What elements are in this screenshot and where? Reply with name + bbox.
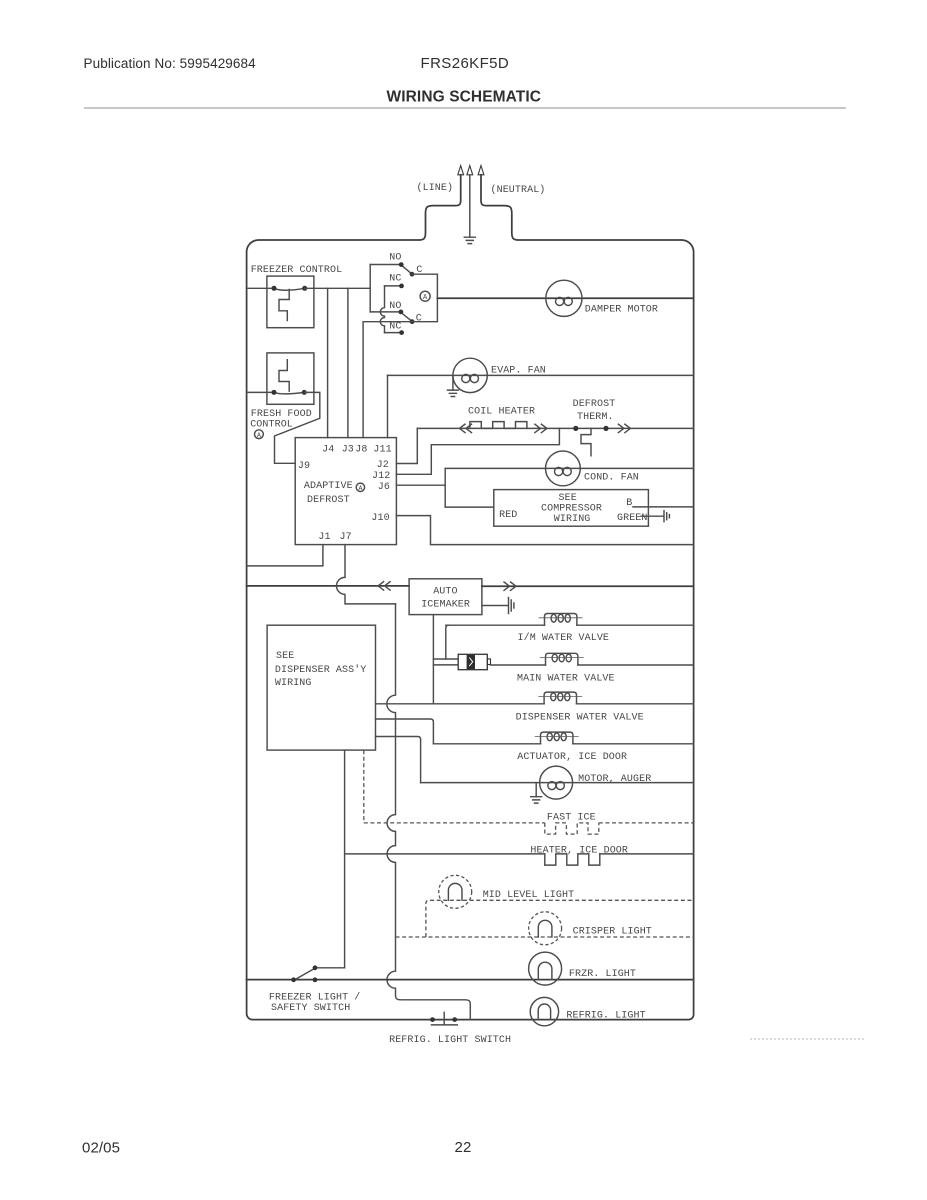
svg-text:RED: RED — [499, 510, 517, 521]
wire: J1 to left edge — [247, 545, 323, 566]
damper motor windings — [556, 297, 564, 305]
GREEN chassis ground symbol — [664, 511, 669, 522]
main water valve coil — [546, 653, 578, 665]
water valve block — [458, 654, 490, 669]
svg-text:J7: J7 — [340, 532, 352, 543]
wire: freezer control to defrost relay — [305, 287, 371, 289]
wire: NC1 to NC2 with hops — [380, 286, 384, 333]
fast ice heater element (dashed bumps down) — [545, 823, 599, 834]
cond fan circle — [546, 451, 581, 486]
evap fan circle — [453, 358, 487, 392]
svg-text:FRZR. LIGHT: FRZR. LIGHT — [569, 969, 636, 980]
svg-text:GREEN: GREEN — [617, 513, 648, 524]
fast ice heater line (dashed) — [364, 822, 694, 824]
wire: J7 drop with hop over icemaker line — [337, 545, 396, 604]
wire: icemaker earth lead — [482, 605, 508, 607]
adaptive defrost control box — [295, 438, 396, 545]
NC terminal 2 — [399, 330, 404, 335]
wire: riser to NO contact 2 — [370, 311, 399, 313]
svg-text:J3: J3 — [342, 445, 354, 456]
auto icemaker box — [409, 579, 482, 615]
svg-text:J9: J9 — [298, 461, 310, 472]
svg-text:WIRING: WIRING — [275, 678, 312, 689]
mid level light filament — [448, 883, 462, 900]
svg-text:ADAPTIVE: ADAPTIVE — [304, 481, 353, 492]
svg-text:C: C — [416, 314, 422, 325]
I/M water valve coil — [545, 614, 577, 626]
ice door heater element (bumps down) — [545, 854, 600, 865]
defrost thermostat terminal dot 1 — [573, 426, 578, 431]
wire: dispenser box to auger motor — [376, 737, 421, 783]
wire: main water valve line — [491, 664, 694, 666]
svg-text:NO: NO — [389, 253, 401, 264]
auger motor circle — [540, 766, 573, 799]
freezer light filament — [538, 962, 552, 979]
wire: J6 to cond fan node — [396, 484, 445, 486]
svg-text:COND. FAN: COND. FAN — [584, 473, 639, 484]
freezer control switch arm — [274, 288, 305, 290]
svg-text:THERM.: THERM. — [577, 412, 614, 423]
evap fan windings — [462, 374, 470, 382]
connector chevrons left on icemaker line — [378, 582, 390, 590]
cond fan windings — [555, 467, 563, 475]
icemaker chassis ground symbol — [509, 598, 514, 614]
wire: icemaker tap riser to I/M valve — [446, 625, 449, 659]
svg-text:J12: J12 — [372, 471, 390, 482]
svg-text:EVAP. FAN: EVAP. FAN — [491, 365, 546, 376]
svg-text:(NEUTRAL): (NEUTRAL) — [491, 184, 546, 196]
svg-text:MOTOR, AUGER: MOTOR, AUGER — [578, 774, 651, 785]
wire: J10 to right bus — [396, 516, 693, 545]
svg-text:DEFROST: DEFROST — [573, 399, 616, 410]
svg-text:FRS26KF5D: FRS26KF5D — [421, 55, 510, 72]
svg-text:DISPENSER WATER VALVE: DISPENSER WATER VALVE — [516, 713, 644, 724]
refrig light bulb — [530, 997, 558, 1025]
mid level light line (dashed) — [426, 900, 694, 937]
coil heater element (bumps up) — [470, 422, 527, 429]
svg-text:NC: NC — [389, 321, 401, 332]
svg-text:J4: J4 — [322, 445, 334, 456]
crisper light line (dashed) — [396, 936, 694, 938]
auger ground symbol — [531, 797, 542, 803]
svg-text:DAMPER MOTOR: DAMPER MOTOR — [585, 304, 658, 315]
crisper light filament — [538, 920, 552, 937]
wire: left edge to freezer control — [247, 287, 272, 289]
title rule — [84, 107, 846, 109]
wire: NC2 stub — [385, 332, 399, 334]
svg-text:MID LEVEL LIGHT: MID LEVEL LIGHT — [483, 890, 575, 901]
mid level light bulb (dashed circle) — [439, 875, 472, 908]
wire: fresh food control to J9 — [275, 392, 320, 463]
wire: cond fan node riser — [444, 468, 446, 507]
wire: I/M water valve line — [446, 624, 694, 626]
freezer light bulb — [529, 952, 562, 985]
wire: left edge to auto icemaker — [247, 585, 410, 587]
wire: B lead to right bus — [633, 506, 694, 508]
NO terminal 1 — [399, 262, 404, 267]
svg-text:SEE: SEE — [276, 651, 294, 662]
svg-text:DEFROST: DEFROST — [307, 495, 350, 506]
fresh food switch arm — [274, 392, 304, 393]
svg-text:Publication No: 5995429684: Publication No: 5995429684 — [84, 56, 257, 71]
wire: NC1 stub — [385, 285, 399, 287]
wire: icemaker to right bus — [482, 585, 694, 587]
svg-text:J6: J6 — [378, 482, 390, 493]
svg-text:NC: NC — [389, 273, 401, 284]
wire: relay to damper motor to right bus — [437, 297, 693, 299]
circled A relay — [420, 291, 430, 301]
svg-text:A: A — [358, 485, 362, 492]
freezer control thermostat box — [267, 276, 314, 328]
NC terminal 1 — [399, 284, 404, 289]
wire: C2 to J8 — [363, 322, 412, 438]
connector chevrons left on heater line — [460, 424, 472, 432]
svg-text:WIRING SCHEMATIC: WIRING SCHEMATIC — [387, 89, 542, 106]
earth ground symbol — [464, 237, 475, 243]
freezer control capillary step — [279, 290, 289, 321]
dispenser assembly box — [267, 625, 375, 750]
svg-text:COMPRESSOR: COMPRESSOR — [541, 504, 602, 515]
svg-text:AUTO: AUTO — [433, 587, 457, 598]
wire: GREEN lead — [641, 515, 663, 517]
ground arrow (hollow arrowhead) — [467, 166, 473, 175]
dispenser water valve coil — [544, 692, 576, 704]
svg-text:I/M WATER VALVE: I/M WATER VALVE — [518, 632, 610, 644]
coil heater / defrost line to right bus — [417, 427, 693, 429]
svg-text:REFRIG. LIGHT SWITCH: REFRIG. LIGHT SWITCH — [389, 1035, 511, 1046]
refrig light switch terminal right — [452, 1017, 457, 1022]
svg-text:ICEMAKER: ICEMAKER — [421, 600, 470, 611]
evap fan ground stub — [452, 375, 454, 390]
svg-text:22: 22 — [455, 1139, 472, 1156]
freezer light line to right bus — [247, 979, 694, 981]
neutral arrow (hollow arrowhead) — [478, 166, 484, 175]
freezer control terminal left — [272, 286, 277, 291]
defrost thermostat capillary step — [581, 428, 591, 455]
damper motor circle — [546, 280, 582, 316]
svg-text:J11: J11 — [373, 445, 391, 456]
wire: actuator feed from dispenser box — [376, 719, 434, 744]
svg-text:SEE: SEE — [559, 493, 577, 504]
wire: left edge to fresh food control — [247, 391, 272, 393]
wire: dispenser box dashed drop to fast ice — [363, 750, 365, 823]
wire: defrost therm tap to J12 — [396, 428, 559, 474]
wire: node to J4 — [327, 288, 329, 437]
wire: cond fan line to right bus — [445, 467, 693, 469]
wire: J2 riser to coil heater line — [396, 428, 417, 463]
svg-text:DISPENSER ASS'Y: DISPENSER ASS'Y — [275, 664, 367, 676]
fresh food terminal right — [302, 390, 307, 395]
wire: auger motor line to right bus — [421, 782, 694, 784]
fresh food capillary step — [279, 360, 289, 392]
circled A fresh food — [255, 430, 264, 439]
svg-text:B: B — [626, 498, 632, 509]
relay switch arm 2 — [401, 313, 412, 322]
safety switch terminal upper — [313, 965, 318, 970]
refrig light switch plunger — [431, 1012, 457, 1025]
wire: RED lead to compressor box — [445, 506, 494, 508]
safety switch terminal left — [291, 977, 296, 982]
line arrow (hollow arrowhead) — [458, 166, 464, 175]
svg-text:J10: J10 — [371, 513, 389, 524]
wire: node to J3 — [347, 288, 349, 437]
wire: actuator ice door line — [433, 743, 693, 745]
freezer control terminal right — [302, 286, 307, 291]
defrost thermostat terminal dot 2 — [603, 426, 608, 431]
wire: branch to valve block lower — [433, 664, 458, 666]
svg-text:SAFETY SWITCH: SAFETY SWITCH — [271, 1003, 350, 1014]
wire: icemaker output down — [432, 615, 434, 704]
relay switch arm 1 — [401, 265, 411, 274]
svg-text:(LINE): (LINE) — [417, 182, 454, 194]
connector chevrons right after defrost therm — [618, 424, 630, 432]
svg-text:FREEZER CONTROL: FREEZER CONTROL — [251, 265, 343, 276]
wire: dispenser valve line — [376, 703, 694, 705]
actuator ice door coil — [541, 732, 573, 744]
svg-text:CONTROL: CONTROL — [250, 419, 293, 430]
compressor wiring box — [494, 490, 649, 527]
svg-text:J2: J2 — [377, 460, 389, 471]
ice door heater line — [345, 853, 694, 855]
svg-text:ACTUATOR, ICE DOOR: ACTUATOR, ICE DOOR — [517, 752, 627, 763]
refrig light filament — [538, 1004, 550, 1020]
safety switch arm — [296, 969, 314, 979]
C terminal 1 — [410, 272, 415, 277]
fresh food control thermostat box — [267, 353, 314, 404]
main cabinet outline / supply bulge wire — [247, 175, 694, 1020]
connector chevrons right on heater line — [535, 424, 547, 432]
svg-text:02/05: 02/05 — [82, 1139, 120, 1156]
svg-text:CRISPER LIGHT: CRISPER LIGHT — [573, 927, 652, 938]
svg-text:FREEZER LIGHT /: FREEZER LIGHT / — [269, 992, 361, 1004]
svg-text:FAST ICE: FAST ICE — [547, 813, 596, 824]
svg-text:WIRING: WIRING — [554, 514, 591, 525]
auger ground stub — [535, 783, 537, 797]
defrost relay coil box — [412, 274, 437, 322]
earth wire from supply — [469, 175, 471, 237]
wire: dispenser box to safety switch (solid drop) — [344, 750, 346, 968]
svg-text:J1: J1 — [318, 532, 330, 543]
wire: branch to valve block upper — [433, 658, 458, 660]
wire: evap fan line to right bus — [388, 374, 694, 376]
safety switch upper wire — [318, 967, 345, 969]
svg-text:J8: J8 — [355, 445, 367, 456]
svg-text:A: A — [257, 432, 261, 439]
safety switch terminal right — [313, 977, 318, 982]
footer dotted mark — [750, 1038, 864, 1040]
long distribution riser with hops — [387, 604, 470, 1020]
wire: riser to NO contact 1 — [370, 264, 399, 266]
wire: J11 riser — [387, 375, 389, 437]
svg-text:REFRIG. LIGHT: REFRIG. LIGHT — [566, 1011, 645, 1022]
refrig light switch terminal left — [430, 1017, 435, 1022]
svg-text:MAIN WATER VALVE: MAIN WATER VALVE — [517, 673, 615, 684]
connector chevrons right on icemaker line — [504, 582, 516, 590]
svg-text:COIL HEATER: COIL HEATER — [468, 407, 535, 418]
auger motor windings — [548, 782, 556, 790]
fresh food terminal left — [272, 390, 277, 395]
defrost relay left riser — [369, 265, 371, 312]
circled A adaptive defrost — [356, 483, 364, 491]
C terminal 2 — [410, 319, 415, 324]
NO terminal 2 — [399, 310, 404, 315]
evap fan ground symbol — [447, 390, 458, 396]
crisper light bulb (dashed circle) — [529, 912, 562, 945]
